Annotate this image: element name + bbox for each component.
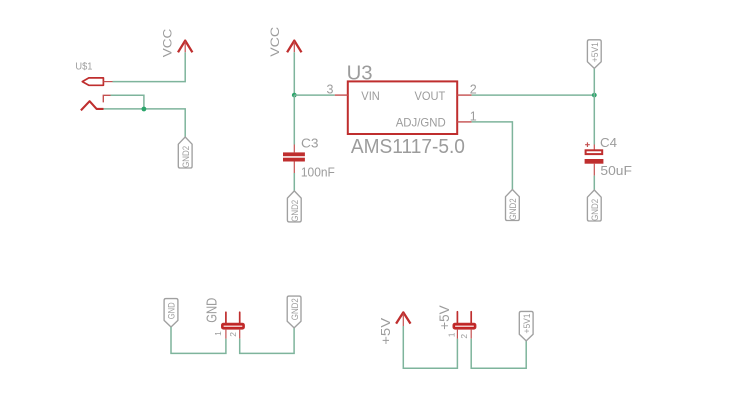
- svg-text:+5V: +5V: [437, 305, 452, 329]
- junction at VIN node: [292, 93, 297, 98]
- jumper SJ bottom-right: [453, 312, 476, 339]
- wire VCC to VIN junction: [293, 52, 295, 95]
- wire C3 to GND2: [293, 173, 295, 191]
- svg-text:GND: GND: [167, 302, 177, 319]
- wire C4 to GND2: [593, 176, 595, 190]
- wire pin 2 to C4 junction: [472, 94, 595, 96]
- connector U$1 switch pin (chevron): [81, 101, 104, 110]
- net label GND at jumper: [204, 298, 221, 323]
- wire GND tag to jumper pin 1: [171, 327, 226, 353]
- svg-text:+5V: +5V: [378, 317, 393, 344]
- svg-text:VCC: VCC: [268, 26, 282, 56]
- capacitor C3 pin top: [293, 145, 295, 153]
- svg-text:2: 2: [459, 334, 469, 339]
- capacitor C4 value 50uF: [600, 163, 632, 178]
- wire ring pin to junction: [111, 95, 144, 109]
- ground GND2 tag under C4: [587, 190, 601, 221]
- supply VCC arrow (middle): [268, 26, 302, 56]
- capacitor C3 pin bottom: [293, 162, 295, 174]
- svg-text:1: 1: [213, 331, 223, 336]
- svg-text:3: 3: [327, 83, 334, 97]
- jumper SJ bottom-right pin number 2: [459, 334, 469, 339]
- connector U$1 label: [75, 61, 92, 72]
- svg-text:GND2: GND2: [181, 146, 191, 168]
- connector U$1 tip pin symbol: [82, 78, 112, 85]
- ground GND2 tag under C3: [287, 191, 301, 222]
- svg-text:U3: U3: [347, 63, 373, 85]
- svg-text:VOUT: VOUT: [415, 89, 446, 103]
- wire +5V arrow to jumper pin 1: [403, 326, 457, 368]
- ground GND2 tag under jack: [178, 137, 192, 168]
- svg-text:C3: C3: [301, 135, 319, 150]
- wire junction to pin 3: [294, 94, 335, 96]
- wire tip pin to VCC: [113, 52, 186, 81]
- jumper SJ bottom-right pin number 1: [447, 332, 457, 337]
- supply +5V arrow bottom right: [378, 312, 411, 344]
- U3 pin 2: [457, 83, 477, 97]
- junction at jack ground node: [142, 107, 147, 112]
- U3 pin name VIN: [361, 89, 380, 103]
- capacitor C4 pin bottom: [593, 164, 595, 176]
- U3 pin 3: [327, 83, 348, 97]
- U3 pin name VOUT: [415, 89, 446, 103]
- svg-text:GND2: GND2: [290, 298, 300, 320]
- svg-text:+5V1: +5V1: [590, 42, 600, 62]
- wire jumper pin 2 to GND2: [240, 328, 294, 354]
- U3 pin name ADJ/GND: [396, 115, 446, 129]
- capacitor C4 pin top: [593, 145, 595, 151]
- svg-text:1: 1: [447, 332, 457, 337]
- jumper SJ bottom-left pin number 1: [213, 331, 223, 336]
- U3 refdes label: [347, 63, 373, 85]
- svg-text:+5V1: +5V1: [522, 314, 532, 334]
- U3 value label AMS1117-5.0: [351, 136, 465, 158]
- svg-text:100nF: 100nF: [301, 164, 335, 179]
- junction at VOUT node: [592, 93, 597, 98]
- wire pin 1 to GND2: [472, 122, 513, 190]
- svg-text:GND2: GND2: [290, 200, 300, 222]
- wire switch pin to GND2: [104, 109, 186, 137]
- capacitor C4 refdes: [600, 135, 617, 150]
- supply +5V1 tag top: [587, 40, 601, 69]
- op-amp U3 regulator box: [348, 81, 457, 134]
- svg-text:C4: C4: [600, 135, 617, 150]
- wire junction up to +5V1 tag: [593, 68, 595, 95]
- svg-text:ADJ/GND: ADJ/GND: [396, 115, 446, 129]
- wire jumper pin 2 to +5V1 tag: [471, 339, 526, 369]
- wire junction down to C3: [293, 95, 295, 144]
- jumper SJ bottom-left pin number 2: [228, 332, 238, 337]
- svg-text:VCC: VCC: [160, 28, 174, 57]
- svg-text:VIN: VIN: [361, 89, 380, 103]
- svg-text:GND2: GND2: [590, 199, 600, 221]
- supply +5V1 tag bottom right: [519, 311, 533, 341]
- net label +5V at jumper: [437, 305, 452, 329]
- svg-text:2: 2: [228, 332, 238, 337]
- svg-text:GND: GND: [204, 298, 221, 323]
- wire junction down to C4: [593, 95, 595, 144]
- connector U$1 ring pin stub: [103, 95, 110, 102]
- capacitor C3 value 100nF: [301, 164, 335, 179]
- ground GND2 tag bottom-left assembly: [287, 296, 301, 328]
- capacitor C4 polarity plus: [585, 142, 590, 147]
- svg-text:50uF: 50uF: [600, 163, 632, 178]
- supply VCC arrow (left): [160, 28, 192, 57]
- jumper SJ bottom-left: [222, 312, 245, 338]
- capacitor C3 refdes: [301, 135, 319, 150]
- svg-text:GND2: GND2: [508, 198, 518, 220]
- U3 pin 1: [457, 109, 477, 123]
- capacitor C4 plates: [585, 150, 604, 163]
- ground GND tag bottom left: [164, 299, 178, 327]
- svg-text:AMS1117-5.0: AMS1117-5.0: [351, 136, 465, 158]
- svg-text:U$1: U$1: [75, 61, 92, 72]
- ground GND2 tag under pin 1: [506, 190, 520, 221]
- capacitor C3 plates: [283, 152, 305, 161]
